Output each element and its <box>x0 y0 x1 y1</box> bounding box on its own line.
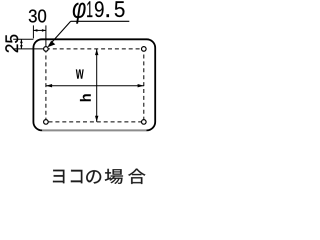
wire leader underline <box>71 20 130 22</box>
hole top-right <box>142 47 147 52</box>
node 30 arrowhead left <box>33 29 37 32</box>
node 19.5 label <box>87 1 124 17</box>
wire 25-dim top extension <box>13 38 33 40</box>
wire w dimension line <box>46 85 144 87</box>
node w arrowhead left <box>46 84 52 87</box>
wire 25 dimension line <box>20 39 22 49</box>
plate outline <box>33 39 155 130</box>
node 30 label <box>29 10 46 23</box>
node h arrowhead bottom <box>95 116 98 122</box>
node 25 arrowhead top <box>20 39 23 43</box>
wire 25-dim bottom extension <box>13 48 43 50</box>
node h arrowhead top <box>95 49 98 55</box>
wire 30 dimension line <box>33 29 46 31</box>
hole bottom-left <box>44 120 49 125</box>
node caption yoko-no-baai <box>53 169 145 184</box>
wire 30-dim right extension <box>45 25 47 46</box>
node 25 arrowhead bottom <box>20 45 23 49</box>
node phi symbol <box>73 3 86 24</box>
wire 30-dim left extension <box>32 25 34 38</box>
node 25 label <box>5 35 18 53</box>
wire h dimension line <box>96 49 98 122</box>
wire plate bottom edge (gray) <box>42 129 146 132</box>
node 30 arrowhead right <box>42 29 46 32</box>
node leader arrowhead <box>47 41 55 48</box>
wire leader diagonal <box>49 21 71 45</box>
wire dashed hole-center rect <box>46 49 144 122</box>
node w label <box>76 69 84 78</box>
hole bottom-right <box>142 120 147 125</box>
hole top-left <box>44 47 49 52</box>
node w arrowhead right <box>138 84 144 87</box>
node h label <box>80 94 91 101</box>
